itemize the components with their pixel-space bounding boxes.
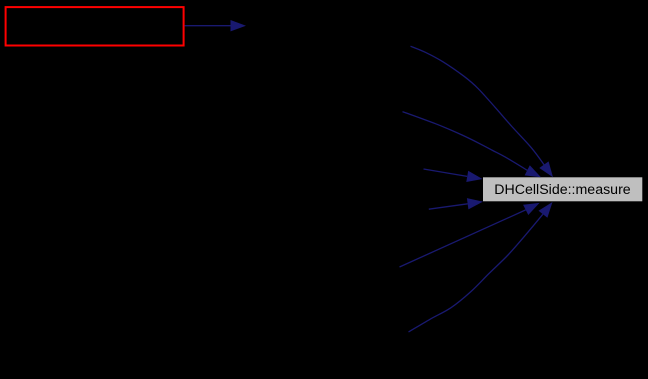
arrowhead arrow 3 (466, 171, 482, 182)
edge arrow 3 (straight caller upper-left) (424, 169, 468, 176)
edge curve 1 (top outer caller) (411, 46, 545, 165)
arrowhead of red-node edge (231, 20, 247, 31)
arrowhead curve 6 (539, 202, 553, 218)
svg-text:DHCellSide::measure: DHCellSide::measure (494, 182, 631, 198)
node DHCellSide::measure (grey filled) (483, 177, 642, 201)
edge curve 6 (bottom outer caller) (409, 214, 543, 332)
arrowhead curve 1 (539, 161, 553, 177)
wire: edge from red node to hidden node (185, 25, 231, 27)
node: current function (red border, truncated graph) (6, 7, 184, 45)
edge arrow 4 (straight caller lower-left) (429, 204, 468, 209)
arrowhead arrow 4 (467, 198, 483, 209)
edge curve 2 (second caller) (403, 112, 528, 171)
arrowhead curve 2 (525, 165, 541, 177)
arrowhead curve 5 (523, 203, 539, 215)
edge curve 5 (lower caller) (400, 210, 526, 267)
